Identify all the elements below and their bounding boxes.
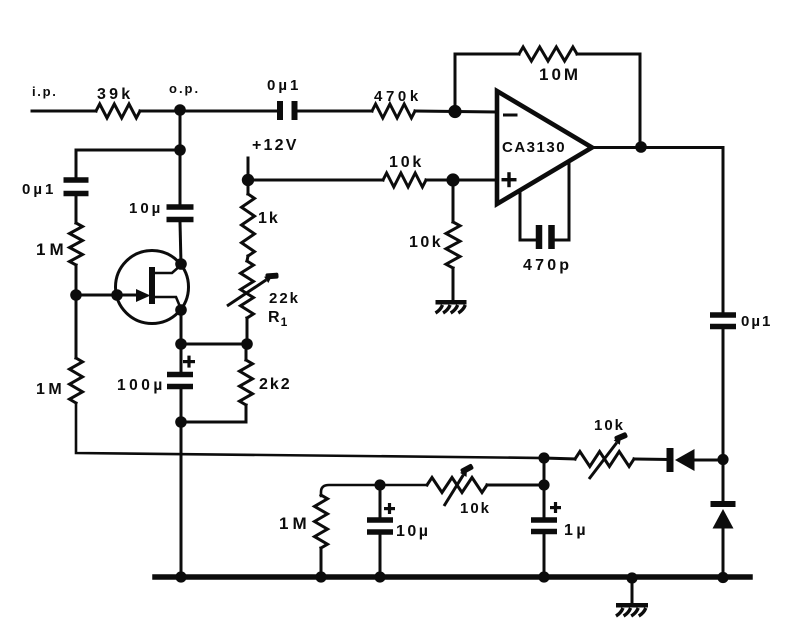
- node +12V junction: [242, 174, 254, 186]
- ground below 10k: [436, 300, 467, 313]
- svg-text:+12V: +12V: [252, 137, 299, 154]
- wire long run to bottom group link: [543, 458, 546, 485]
- svg-text:10k: 10k: [594, 417, 625, 434]
- node o.p. junction: [174, 104, 186, 116]
- wire 22k node to 2k2: [245, 344, 248, 360]
- svg-text:1k: 1k: [258, 210, 280, 227]
- wire pot to junction: [487, 484, 544, 487]
- svg-text:1M: 1M: [36, 381, 65, 398]
- capacitor 470p: [536, 225, 555, 249]
- node tap junction: [174, 144, 186, 156]
- wire gate node down to 1M lower: [75, 295, 78, 358]
- wire diode node down to D2: [722, 460, 725, 502]
- wire 10k to ground symbol: [452, 268, 455, 302]
- wire o.p. to capacitor 0u1: [180, 110, 277, 113]
- svg-text:22k: 22k: [269, 290, 300, 307]
- potentiometer R1 22k wiper arrow: [227, 273, 279, 306]
- wire tap to left column: [76, 149, 180, 152]
- svg-text:0µ1: 0µ1: [267, 77, 301, 94]
- wire junction to resistor 10k ground leg: [452, 180, 455, 222]
- transistor Q1 source lead: [154, 297, 181, 309]
- wire 22k to source node: [246, 318, 249, 344]
- resistor 1k: [242, 194, 255, 256]
- diode D2 triangle: [713, 509, 734, 529]
- wire source node row: [181, 343, 247, 346]
- transistor Q1 channel bar: [149, 267, 155, 304]
- svg-text:10µ: 10µ: [129, 200, 163, 217]
- node inverting input junction: [448, 105, 461, 118]
- svg-text:i.p.: i.p.: [32, 84, 58, 99]
- svg-text:10M: 10M: [539, 65, 581, 84]
- op-amp U1 CA3130 triangle: [497, 91, 592, 204]
- svg-text:0µ1: 0µ1: [741, 313, 772, 330]
- node gate column junction: [70, 289, 82, 301]
- svg-text:10k: 10k: [409, 234, 443, 251]
- resistor 470k: [372, 104, 415, 118]
- svg-text:10k: 10k: [460, 500, 491, 517]
- diode D1 cathode bar: [667, 448, 674, 472]
- capacitor 0µ1 coupling (top): [277, 101, 298, 120]
- wire bottom group row with rounded corner: [321, 485, 427, 496]
- wire input from i.p. to resistor 39k: [32, 110, 96, 113]
- svg-text:39k: 39k: [97, 86, 133, 103]
- diode D1 triangle: [675, 449, 695, 471]
- capacitor 0µ1 left: [64, 177, 89, 196]
- op-amp inverting input minus sign: [503, 114, 518, 117]
- wire 39k to node o.p.: [140, 110, 180, 113]
- node output junction: [635, 141, 647, 153]
- wire 10u to JFET drain: [180, 222, 181, 264]
- ground below rail: [616, 603, 648, 616]
- node rail diode: [717, 572, 728, 583]
- resistor 1M lower left: [70, 358, 83, 403]
- capacitor 10µ: [167, 204, 194, 222]
- node rail main-line: [175, 571, 186, 582]
- wire 0u1 to resistor 470k: [297, 110, 372, 113]
- node 10µ top junction: [374, 479, 385, 490]
- node rail 10u: [374, 571, 385, 582]
- transistor Q1 JFET envelope circle: [116, 251, 189, 324]
- op-amp non-inverting input plus sign: [502, 172, 517, 187]
- capacitor 1µ plus sign: [550, 502, 561, 513]
- wire 0u1 down to diode node: [722, 329, 725, 459]
- wire 1M to gate node: [75, 265, 78, 295]
- wire D2 to rail: [722, 528, 725, 577]
- wire 1u top stub: [543, 485, 546, 516]
- potentiometer 10k wiper arrow (right): [589, 432, 628, 479]
- wire pot to diode D1: [634, 458, 668, 462]
- svg-text:470k: 470k: [374, 88, 422, 105]
- resistor 10M feedback: [519, 47, 577, 61]
- diode D2 cathode bar: [711, 501, 736, 507]
- wire 1k to 22k: [247, 256, 248, 261]
- capacitor 10µ bottom: [367, 517, 393, 535]
- wire 1M down and long run right: [76, 403, 544, 458]
- svg-text:2k2: 2k2: [259, 376, 292, 393]
- node rail 1M: [315, 571, 326, 582]
- svg-text:1M: 1M: [279, 514, 311, 533]
- svg-text:10µ: 10µ: [396, 523, 431, 540]
- wire 10u bottom to rail: [379, 535, 382, 577]
- svg-text:470p: 470p: [523, 257, 572, 274]
- node source junction: [175, 304, 187, 316]
- ground rail: [155, 574, 750, 580]
- wire 1u bottom to rail: [543, 534, 546, 577]
- wire feedback right riser to output: [639, 54, 642, 146]
- resistor 10k to non-inverting input: [383, 173, 426, 187]
- node long-run junction: [538, 452, 549, 463]
- capacitor 10µ bottom plus sign: [384, 503, 395, 514]
- node main line at y344: [175, 338, 187, 350]
- wire +12V supply stub: [247, 158, 250, 180]
- node diode junction: [717, 454, 728, 465]
- svg-text:0µ1: 0µ1: [22, 181, 56, 198]
- wire tap down to 10u cap: [179, 150, 182, 206]
- node source-bias junction: [241, 338, 253, 350]
- transistor Q1 drain lead: [154, 265, 181, 273]
- wire D1 to output column: [694, 459, 723, 462]
- wire output down right side: [722, 148, 725, 314]
- capacitor 100µ plus sign: [183, 356, 195, 368]
- wire feedback left riser: [454, 54, 457, 112]
- resistor 1M bottom: [315, 495, 328, 548]
- potentiometer 10k element (middle): [427, 478, 487, 493]
- svg-text:1µ: 1µ: [564, 522, 589, 539]
- wire rail to ground symbol: [631, 577, 634, 604]
- svg-text:100µ: 100µ: [117, 377, 166, 394]
- wire left column top: [75, 150, 78, 177]
- wire 100u down to ground rail: [180, 389, 183, 577]
- capacitor 1µ: [531, 517, 557, 534]
- wire source node to 100u: [180, 310, 183, 372]
- potentiometer R1 22k element: [241, 261, 254, 318]
- svg-text:1M: 1M: [36, 240, 68, 259]
- wire op-amp output: [592, 146, 723, 149]
- wire +12V to resistor 10k: [248, 179, 383, 182]
- potentiometer 10k wiper arrow (middle): [444, 463, 474, 506]
- svg-text:CA3130: CA3130: [502, 139, 566, 156]
- node rail ground stub: [626, 572, 637, 583]
- wire op-amp pin to 470p right: [556, 161, 569, 240]
- resistor 1M upper left: [70, 223, 83, 265]
- wire junction to 1k: [247, 180, 250, 194]
- node drain junction: [175, 258, 187, 270]
- capacitor 100µ: [167, 372, 193, 390]
- node main line at y422: [175, 416, 187, 428]
- wire 1M bottom to rail: [320, 548, 323, 577]
- wire junction to right pot: [544, 458, 575, 459]
- capacitor 0µ1 output (right): [710, 312, 736, 329]
- resistor 39k: [96, 104, 140, 118]
- wire 0u1 to 1M: [75, 196, 78, 223]
- node rail 1u: [538, 571, 549, 582]
- svg-text:10k: 10k: [389, 154, 424, 171]
- node gate at circle edge: [111, 289, 123, 301]
- wire o.p. down to tap: [179, 111, 182, 150]
- wire 10u top stub: [379, 485, 382, 516]
- node non-inverting junction: [446, 173, 459, 186]
- wire 10k to plus input: [426, 179, 497, 182]
- transistor Q1 gate arrow: [136, 291, 148, 301]
- wire 470k to inverting input: [415, 111, 496, 112]
- wire feedback top right: [577, 53, 640, 56]
- resistor 2k2: [240, 360, 253, 405]
- wire feedback top left: [455, 53, 519, 56]
- node bottom group junction right: [538, 479, 549, 490]
- wire 2k2 to bottom row: [181, 405, 246, 422]
- wire gate: [76, 294, 138, 297]
- wire op-amp pin to 470p left: [520, 190, 535, 240]
- resistor 10k to ground: [446, 222, 460, 268]
- svg-text:o.p.: o.p.: [169, 81, 200, 96]
- potentiometer 10k element (right): [575, 452, 634, 467]
